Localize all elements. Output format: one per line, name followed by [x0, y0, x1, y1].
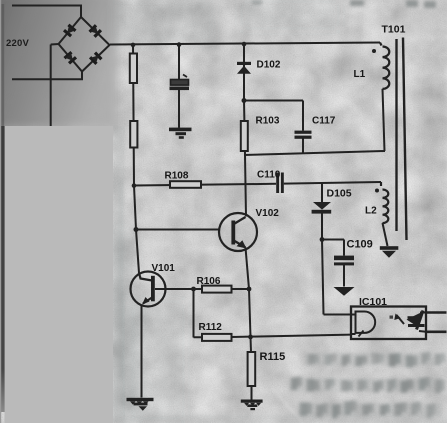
svg-text:L2: L2 — [365, 206, 377, 217]
svg-text:D102: D102 — [257, 60, 281, 71]
svg-text:R115: R115 — [260, 351, 286, 363]
svg-text:C110: C110 — [257, 170, 281, 181]
svg-text:R112: R112 — [199, 322, 223, 333]
svg-text:C109: C109 — [347, 239, 373, 251]
svg-text:R103: R103 — [256, 116, 280, 127]
svg-text:L1: L1 — [354, 69, 366, 80]
svg-text:C117: C117 — [312, 116, 336, 127]
svg-text:R106: R106 — [197, 276, 221, 287]
svg-text:T101: T101 — [382, 24, 406, 36]
svg-text:V102: V102 — [256, 208, 280, 219]
svg-text:R108: R108 — [165, 171, 189, 182]
svg-text:D105: D105 — [327, 188, 352, 200]
svg-text:IC101: IC101 — [359, 296, 387, 308]
svg-text:V101: V101 — [152, 263, 176, 274]
svg-text:220V: 220V — [6, 38, 29, 49]
